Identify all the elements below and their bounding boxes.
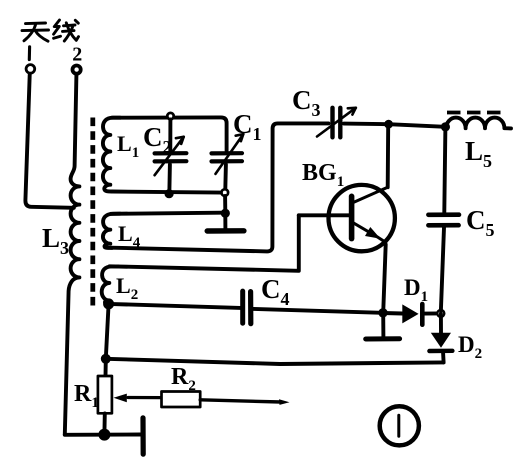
wire L2 node down to R1 (106, 304, 109, 376)
wire base to L2 top (110, 215, 299, 270)
node junction at top of C2 (open dot) (167, 113, 173, 119)
inductor L3 (antenna coil) with lead from terminal 2 and bottom lead (65, 76, 80, 435)
junction dot R1 top (101, 354, 111, 364)
diode D1 (383, 304, 441, 325)
wire L4 bottom up to C3 (feedback loop) (111, 123, 329, 251)
junction dot at L4 top / ground (221, 209, 230, 218)
resistor R1 (volume potentiometer) (98, 376, 112, 413)
svg-text:2: 2 (72, 44, 82, 66)
terminal 1 pin label "1" (28, 47, 31, 60)
wire R2 output with arrow tip (200, 399, 289, 405)
terminal 1 circle (26, 65, 35, 74)
ground (bottom, rotated bar) (140, 418, 145, 454)
junction dot L2 bottom (103, 298, 114, 309)
capacitor C5 (428, 127, 459, 311)
junction dot collector node (384, 120, 393, 129)
capacitor C1 (variable) (212, 134, 244, 189)
inductor L1 coil (103, 118, 120, 192)
capacitor C3 (variable trimmer) (317, 108, 356, 138)
wire L1 bottom to C1 bottom (112, 192, 222, 193)
wire C3 to collector node (344, 122, 389, 126)
ground (L1/L4 tank) (207, 213, 244, 231)
inductor L2 coil (102, 266, 118, 303)
capacitor C4 (109, 291, 383, 324)
wire L4 top to ground node (111, 213, 222, 214)
junction dot L5/C5 node (441, 122, 450, 131)
wire C1-bottom node down to L4-top node (223, 196, 227, 212)
ground (emitter) (366, 313, 400, 339)
wire collector node to L5 node (389, 124, 446, 127)
wire terminal1 down and right to L3 tap (25, 75, 73, 208)
node junction C1 bottom (open dot) (222, 189, 229, 196)
resistor R2 (162, 392, 201, 408)
wire bottom node (65, 433, 141, 437)
R1 bottom lead (102, 413, 106, 434)
capacitor C2 (variable) (155, 120, 187, 191)
antenna label 天线 (22, 20, 79, 41)
ferrite core dashed line (90, 118, 95, 308)
potentiometer wiper arrow (114, 394, 163, 403)
node junction D1/D2/C5 (open dot) (437, 310, 444, 317)
figure number circle 1 (380, 406, 419, 445)
L5 core dashed line (447, 111, 502, 115)
junction dot emitter node (378, 308, 387, 317)
wire D2 bottom to R1 top node (106, 359, 444, 364)
terminal 2 circle (73, 66, 81, 74)
junction dot C2 bottom (165, 189, 174, 198)
transistor BG1 (299, 124, 395, 313)
inductor L5 (446, 118, 511, 129)
junction dot bottom-left (98, 429, 110, 441)
diode D2 (429, 313, 452, 362)
inductor L4 coil (103, 214, 120, 248)
wire L1 top to C1 top (112, 117, 227, 150)
